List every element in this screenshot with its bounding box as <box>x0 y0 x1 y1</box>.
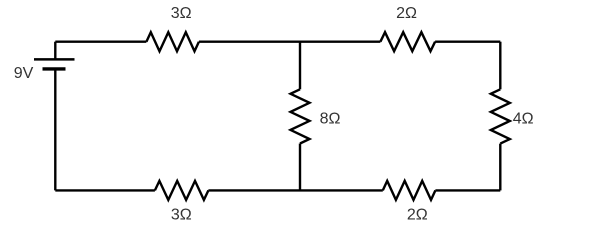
svg-text:2Ω: 2Ω <box>396 5 417 22</box>
svg-text:2Ω: 2Ω <box>407 207 428 224</box>
svg-text:3Ω: 3Ω <box>171 5 192 22</box>
svg-text:3Ω: 3Ω <box>171 207 192 224</box>
svg-text:9V: 9V <box>14 65 34 82</box>
svg-text:4Ω: 4Ω <box>513 111 534 128</box>
svg-text:8Ω: 8Ω <box>320 111 341 128</box>
